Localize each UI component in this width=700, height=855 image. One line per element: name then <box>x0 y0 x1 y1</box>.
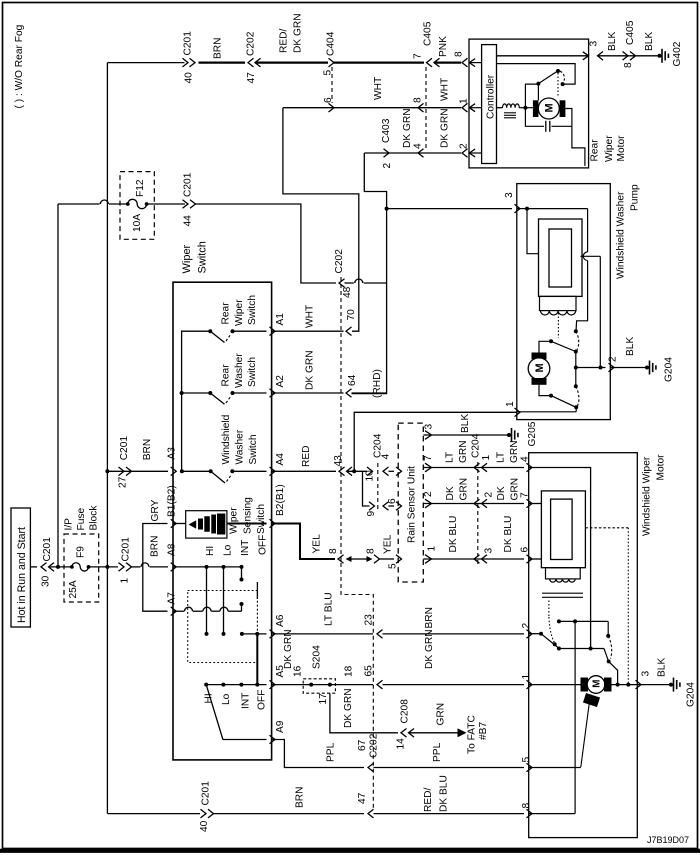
wire main feed vertical x107 from top corner to bottom BRN wire <box>106 63 108 814</box>
svg-text:A9: A9 <box>275 720 286 733</box>
svg-text:C208: C208 <box>400 699 411 724</box>
svg-text:1: 1 <box>505 401 516 407</box>
wire DK GRN feed to pump pin 3 <box>385 207 389 211</box>
svg-text:DK: DK <box>445 486 456 500</box>
svg-text:PNK: PNK <box>438 36 449 57</box>
connector chevron 8 right <box>374 555 380 564</box>
park switch arm lower <box>604 649 609 662</box>
wiper switch pin A4 <box>270 467 276 476</box>
wiper motor pin 4 <box>527 463 533 472</box>
rain sensor pin 7 row to wiper motor pin 4 <box>425 463 432 472</box>
svg-text:G205: G205 <box>527 421 538 446</box>
connector C201 cavity 30 <box>41 563 47 572</box>
svg-text:DK GRN: DK GRN <box>305 350 316 390</box>
svg-text:INT: INT <box>240 540 251 556</box>
svg-text:Fuse: Fuse <box>76 508 87 531</box>
wire A6 row inside switch <box>242 633 267 635</box>
svg-text:6: 6 <box>387 498 398 504</box>
mechanical dotted link rear motor <box>557 73 559 98</box>
svg-text:C201: C201 <box>119 436 130 461</box>
connector C405 cavity 8 <box>418 103 424 112</box>
rear motor loop wires <box>525 84 544 126</box>
wiper motor pin 1 <box>527 680 533 689</box>
rear motor brush right <box>560 100 566 117</box>
connector C405 cavity 8 rear <box>623 52 629 61</box>
svg-text:OFF: OFF <box>257 690 268 710</box>
washer pump pin 2 <box>609 363 615 372</box>
svg-text:BRN: BRN <box>424 607 435 629</box>
svg-text:BLK: BLK <box>607 32 618 51</box>
wiper motor armature inner <box>551 499 573 559</box>
svg-text:2: 2 <box>459 143 470 149</box>
svg-text:PPL: PPL <box>326 742 337 762</box>
svg-text:3: 3 <box>424 424 435 430</box>
svg-text:GRN: GRN <box>458 440 469 463</box>
splice S204 dashed box <box>303 679 335 693</box>
svg-text:1: 1 <box>120 578 131 584</box>
svg-text:A8: A8 <box>167 543 178 556</box>
svg-text:Switch: Switch <box>247 295 258 325</box>
svg-text:8: 8 <box>521 803 532 809</box>
wiper sensing switch icon <box>173 523 186 525</box>
wiper switch pin B1(B2) <box>171 519 177 528</box>
svg-text:8: 8 <box>413 97 424 103</box>
double arrow wire link <box>351 558 367 560</box>
pump switch dashed arc upper <box>576 331 579 350</box>
connector C202 cavity 67 <box>368 763 374 772</box>
svg-text:7: 7 <box>413 53 424 59</box>
wire RED/DK GRN top (bold) <box>255 61 328 63</box>
park switch pin 2 contact <box>529 633 541 635</box>
wire into rain sensor left top <box>389 470 395 472</box>
wire to washer pump pin 1 <box>354 412 517 471</box>
commutator double lines <box>542 592 583 594</box>
svg-text:DK BLU: DK BLU <box>503 516 514 553</box>
connector C204 cavity 6 left <box>383 502 389 511</box>
svg-text:DK GRN: DK GRN <box>343 688 354 728</box>
wire pivot to brush <box>537 84 539 101</box>
arrow to FATC #B7 <box>458 728 467 737</box>
wire BRN top (bold) <box>199 61 246 63</box>
wafer OFF contact bar <box>256 582 258 599</box>
svg-text:C405: C405 <box>423 21 434 46</box>
hot in run and start label box <box>11 508 30 627</box>
wiper motor M <box>587 676 605 694</box>
svg-text:64: 64 <box>347 374 358 386</box>
svg-text:DK GRN: DK GRN <box>440 108 451 148</box>
rear wiper switch bus <box>182 331 211 471</box>
ground G204 motor <box>669 683 673 687</box>
connector C201 cavity 27 <box>119 467 125 476</box>
svg-text:2: 2 <box>521 623 532 629</box>
svg-text:1: 1 <box>481 455 492 461</box>
svg-text:BRN: BRN <box>142 439 153 461</box>
vertical link down to pin 8 row <box>574 621 576 813</box>
svg-text:A7: A7 <box>167 592 178 605</box>
pump top rail to upper park contact <box>527 208 588 210</box>
connector C404 cavity 5 <box>329 58 335 67</box>
pump pin 1 wire <box>517 411 576 413</box>
svg-text:8: 8 <box>454 51 465 57</box>
svg-text:F12: F12 <box>135 179 146 197</box>
rear wiper switch contacts <box>208 329 212 333</box>
park switch wire row 648 <box>559 648 604 650</box>
wiper arm blob <box>583 693 600 707</box>
svg-text:WHT: WHT <box>440 78 451 101</box>
svg-text:C201: C201 <box>183 172 194 197</box>
svg-text:7: 7 <box>423 455 434 461</box>
wire DK GRN from corner to controller pin 2 <box>364 152 461 154</box>
wafer HI column <box>206 567 208 632</box>
svg-text:RED/: RED/ <box>423 787 434 812</box>
svg-text:2: 2 <box>484 492 495 498</box>
connector C202 cavity 64 <box>346 389 352 398</box>
svg-text:9: 9 <box>366 511 377 517</box>
controller pin 1 <box>462 103 468 112</box>
connector C202 cavity 70 <box>346 327 352 336</box>
svg-text:LT: LT <box>496 452 507 463</box>
svg-text:3: 3 <box>484 548 495 554</box>
wire sensing switch to pin B2(B1) <box>227 523 267 525</box>
wiper motor pin 8 wire <box>529 813 575 815</box>
wire staircase from DK GRN row to pump pin 3 junction <box>352 153 387 394</box>
svg-text:14: 14 <box>396 738 407 750</box>
svg-text:( ) : W/O Rear Fog: ( ) : W/O Rear Fog <box>14 24 25 108</box>
pump switch center link <box>575 352 577 368</box>
svg-text:Hot in Run and Start: Hot in Run and Start <box>16 527 28 623</box>
svg-text:Wiper: Wiper <box>229 507 240 534</box>
wiper motor pin 1 wire <box>529 684 581 686</box>
svg-text:Rain Sensor Unit: Rain Sensor Unit <box>407 466 418 543</box>
svg-text:GRY: GRY <box>150 499 161 521</box>
mechanical link dotted box <box>188 591 258 663</box>
svg-text:B1(B2): B1(B2) <box>167 485 178 517</box>
wire RED/DK BLU to wiper motor pin 8 <box>374 813 525 815</box>
svg-text:G204: G204 <box>686 682 697 707</box>
park switch dashed travel arc <box>608 636 612 659</box>
wire BRN bottom row <box>107 813 200 815</box>
svg-text:4: 4 <box>413 143 424 149</box>
wire GRY link B1 to A7 <box>143 524 168 612</box>
park switch upper contact row 621 <box>559 620 608 622</box>
pump scallops <box>541 311 576 315</box>
svg-text:Lo: Lo <box>223 544 234 556</box>
svg-text:2: 2 <box>423 491 434 497</box>
connector C404 runner dashed <box>331 67 333 103</box>
wire A5 row inside switch <box>206 684 266 686</box>
svg-text:C201: C201 <box>183 31 194 56</box>
wiper motor pin 4 wire and long vertical <box>529 468 591 649</box>
rain sensor pin 3 to ground G205 <box>425 431 432 440</box>
svg-text:Switch: Switch <box>248 434 259 464</box>
svg-text:Lo: Lo <box>221 693 232 705</box>
svg-text:YEL: YEL <box>312 534 323 554</box>
svg-text:Windshield Washer: Windshield Washer <box>616 191 627 279</box>
wiper switch pin A2 <box>270 389 276 398</box>
svg-text:67: 67 <box>357 739 368 751</box>
svg-text:65: 65 <box>364 665 375 677</box>
svg-text:BLK: BLK <box>460 414 471 433</box>
wire DK GRN from C202-65 to wiper motor pin 1 <box>383 684 525 686</box>
svg-text:18: 18 <box>344 665 355 677</box>
svg-text:1: 1 <box>459 98 470 104</box>
inductor coil on controller output <box>497 107 503 109</box>
wire BRN feed to pin A3 from main vertical <box>105 469 109 473</box>
wire from C202-48 with hop to DK GRN vertical <box>345 282 354 284</box>
wire YEL into rain sensor pin 5 <box>380 558 395 560</box>
svg-text:A1: A1 <box>275 313 286 326</box>
wire GRN to FATC <box>409 732 460 734</box>
wiper motor pin 5 <box>527 763 533 772</box>
svg-text:25A: 25A <box>68 580 79 598</box>
svg-text:10A: 10A <box>132 214 143 232</box>
svg-text:44: 44 <box>183 215 194 227</box>
svg-text:Washer: Washer <box>234 353 245 388</box>
park switch dashed travel arc rear <box>560 71 564 83</box>
svg-text:BLK: BLK <box>644 32 655 51</box>
windshield wiper motor box <box>529 453 638 838</box>
wiper arm to A9 <box>206 685 223 740</box>
pump body inner <box>549 229 572 287</box>
svg-text:Rear: Rear <box>221 302 232 325</box>
svg-text:5: 5 <box>521 757 532 763</box>
svg-text:GRN: GRN <box>509 440 520 463</box>
svg-text:BRN: BRN <box>150 535 161 557</box>
svg-text:Rear: Rear <box>221 364 232 387</box>
svg-text:6: 6 <box>323 97 334 103</box>
connector C202 cavity 43 <box>339 467 345 476</box>
svg-text:8: 8 <box>623 62 634 68</box>
I/P fuse block dashed box <box>64 534 99 602</box>
fuse F9 25A element <box>70 565 74 569</box>
splice tap 17 to C208-14 <box>330 693 398 733</box>
pump body outer <box>539 219 583 296</box>
connector C405 runner dashed <box>425 67 427 149</box>
svg-text:Wiper: Wiper <box>604 135 615 162</box>
rain sensor pin 1 row to wiper motor pin 6 <box>425 555 432 564</box>
svg-text:PPL: PPL <box>432 742 443 762</box>
svg-text:DK GRN: DK GRN <box>293 13 304 53</box>
svg-text:WHT: WHT <box>305 305 316 328</box>
svg-text:M: M <box>592 680 603 688</box>
pump armature stub to pin 2 node <box>580 255 600 257</box>
svg-text:Switch: Switch <box>247 357 258 387</box>
wiper motor pin 3 <box>636 680 642 689</box>
svg-text:Wiper: Wiper <box>234 299 245 326</box>
inductor core lines <box>504 112 516 114</box>
wiper switch pin B2(B1) <box>270 519 276 528</box>
rear motor loop right <box>552 109 572 127</box>
ground G402 <box>658 54 662 58</box>
svg-text:DK BLU: DK BLU <box>439 775 450 812</box>
wire BRN to C405 (bold) <box>334 61 424 63</box>
wire WHT staircase from C404-6 down to C202-70 <box>283 108 359 332</box>
wire PNK to controller pin 8 (bold) <box>434 61 461 63</box>
svg-text:S204: S204 <box>312 645 323 669</box>
wire from F12 to connector C201-44 <box>147 203 185 205</box>
svg-text:C204: C204 <box>373 433 384 458</box>
wire BLK to C405-8 <box>597 55 660 57</box>
connector C204 cavity 4 left <box>383 467 389 476</box>
wiper motor neck <box>546 568 581 579</box>
svg-text:Controller: Controller <box>486 74 497 119</box>
wire into rain sensor left mid <box>389 505 395 507</box>
svg-text:B2(B1): B2(B1) <box>275 484 286 516</box>
connector C204 cavity 10 <box>367 467 373 476</box>
park switch arm rear <box>536 82 540 86</box>
wiper switch wafer upper row A8 <box>173 566 242 568</box>
svg-text:8: 8 <box>366 548 377 554</box>
svg-text:3: 3 <box>589 41 600 47</box>
wiper switch box <box>173 282 272 760</box>
svg-text:RED: RED <box>301 445 312 467</box>
svg-text:J7B19D07: J7B19D07 <box>647 835 689 845</box>
wiper switch pin A8 <box>171 563 177 572</box>
svg-text:17: 17 <box>318 693 329 705</box>
svg-text:G402: G402 <box>672 41 683 66</box>
wiper motor pin 2 <box>527 630 533 639</box>
fuse F12 dashed box <box>120 172 154 240</box>
link OFF to A5 row <box>256 634 258 685</box>
pump internal feed node <box>517 208 527 210</box>
svg-text:DK: DK <box>496 486 507 500</box>
svg-text:(RHD): (RHD) <box>372 369 383 398</box>
svg-text:C201: C201 <box>201 781 212 806</box>
connector C202 cavity 65 <box>377 680 383 689</box>
svg-text:DK GRN: DK GRN <box>283 629 294 669</box>
svg-text:C201: C201 <box>42 537 53 562</box>
wire YEL from B2 to C202-8 <box>272 524 335 560</box>
svg-text:DK BLU: DK BLU <box>448 516 459 553</box>
wire fuse F12 feed from corner x58 <box>58 203 100 205</box>
wiper motor pin 6 wire <box>529 558 542 560</box>
wire BRN from C202-23 to wiper motor pin 2 <box>383 633 525 635</box>
svg-text:C202: C202 <box>369 733 380 758</box>
windshield washer pump box <box>517 184 611 420</box>
svg-text:Switch: Switch <box>197 241 209 273</box>
svg-text:Switch: Switch <box>256 504 267 534</box>
connector C202 cavity 8 <box>338 555 344 564</box>
svg-text:M: M <box>544 103 556 112</box>
pump switch dashed arc lower <box>576 386 579 406</box>
wiper motor pin 7 wire <box>529 503 542 505</box>
rear motor wire to box bottom <box>572 126 585 166</box>
svg-text:GRN: GRN <box>459 478 470 501</box>
rear motor M <box>538 98 559 119</box>
wiper switch pin A1 <box>270 327 276 336</box>
controller pin 8 <box>462 58 468 67</box>
svg-text:BLK: BLK <box>625 337 636 356</box>
wiper motor pin 5 wire <box>529 767 581 769</box>
svg-text:2: 2 <box>382 163 393 169</box>
connector C204 cavity 3 <box>474 555 480 564</box>
wire WHT row <box>283 107 461 109</box>
wiper motor brush left <box>581 678 589 692</box>
washer pump pin 1 <box>515 408 521 417</box>
svg-text:C403: C403 <box>381 118 392 143</box>
connector C208 cavity 14 <box>401 729 407 738</box>
wiper switch pin A6 <box>270 630 276 639</box>
svg-text:3: 3 <box>641 671 652 677</box>
svg-text:Sensing: Sensing <box>243 497 254 534</box>
svg-text:LT: LT <box>445 452 456 463</box>
svg-text:C201: C201 <box>121 537 132 562</box>
pump brush bottom <box>532 378 547 385</box>
wire to fuse F9 <box>49 566 72 568</box>
svg-text:INT: INT <box>241 693 252 709</box>
svg-text:Washer: Washer <box>235 429 246 464</box>
svg-text:M: M <box>534 363 546 372</box>
wire DK GRN from A5 through splice S204 <box>272 684 373 686</box>
svg-text:To FATC: To FATC <box>467 715 478 754</box>
wiper arm mechanism line <box>581 702 590 768</box>
svg-text:HI: HI <box>205 546 216 556</box>
svg-text:Pump: Pump <box>630 184 641 211</box>
wire top feed horizontal to connector C201-40 <box>107 62 184 64</box>
pump brush top <box>532 353 547 360</box>
rear washer switch contacts <box>180 391 184 395</box>
wiper motor pin 7 <box>527 499 533 508</box>
hop over main vertical <box>100 200 108 204</box>
svg-text:70: 70 <box>346 309 357 321</box>
connector C201 cavity 44 <box>183 200 189 209</box>
wire WHT from A1 to C202-70 <box>272 330 344 332</box>
wire RED from A4 to C202-43 <box>272 470 336 472</box>
svg-text:47: 47 <box>246 72 257 84</box>
ground G205 <box>507 433 511 437</box>
hot feed row to pin A8 <box>30 566 37 568</box>
wiper switch wafer row A7 with hops <box>173 610 184 612</box>
wiper motor scallops <box>550 579 576 582</box>
svg-text:40: 40 <box>199 820 210 832</box>
connector C204 right runner dashed <box>477 462 479 565</box>
svg-text:LT BLU: LT BLU <box>324 592 335 626</box>
rail to rear motor pin 3 <box>497 55 589 57</box>
svg-text:48: 48 <box>342 286 353 298</box>
connector C404 cavity 6 <box>329 103 335 112</box>
wiper motor output row to pin 3 <box>612 684 638 686</box>
connector C201 cavity 40 <box>183 58 189 67</box>
fuse F12 10A element <box>126 202 130 206</box>
rain sensor pin 2 row to wiper motor pin 7 <box>425 499 432 508</box>
svg-text:1: 1 <box>427 546 438 552</box>
svg-text:Block: Block <box>89 505 100 531</box>
wire from C201-44 to corner and down to C202-48 row <box>196 204 337 283</box>
svg-text:Windshield Wiper: Windshield Wiper <box>642 456 653 536</box>
svg-text:BLK: BLK <box>657 658 668 677</box>
connector C405 cavity 4 <box>418 149 424 158</box>
svg-text:A4: A4 <box>275 453 286 466</box>
mechanical dotted link wiper motor <box>548 601 550 618</box>
wiper switch pin A3 <box>171 467 177 476</box>
svg-text:Motor: Motor <box>616 135 627 162</box>
vertical feed x58 down to hot row <box>57 204 59 567</box>
pump neck <box>540 296 577 310</box>
svg-text:16: 16 <box>293 665 304 677</box>
ground G204 pump <box>645 366 649 370</box>
svg-text:3: 3 <box>504 192 515 198</box>
connector C202 cavity 23 <box>377 630 383 639</box>
svg-text:30: 30 <box>41 575 52 587</box>
connector C202 cavity 48 <box>339 279 345 288</box>
connector C202 cavity 47 bottom <box>368 809 374 818</box>
pump switch upper contact <box>539 341 550 352</box>
pump switch lower contact <box>539 385 550 396</box>
svg-text:OFF: OFF <box>258 535 269 555</box>
svg-text:10: 10 <box>365 470 376 482</box>
wire PPL from A9 <box>272 740 364 768</box>
wire BLK to ground G204 <box>610 367 647 369</box>
